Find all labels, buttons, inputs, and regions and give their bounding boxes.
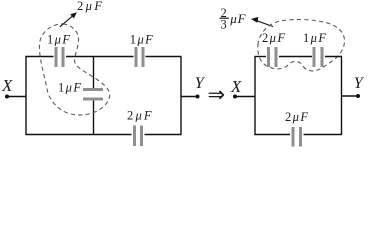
wire: top rail right segment (right circuit) [325,56,342,58]
svg-text:1μF: 1μF [58,80,82,94]
svg-text:1μF: 1μF [130,33,154,47]
wire: top rail middle segment (right circuit) [279,56,312,58]
arrow from dashed group to 2μF equivalent label [60,12,77,27]
wire: bottom rail right segment (right circuit) [304,134,343,136]
value label 1μF (C1) [47,33,71,47]
svg-text:X: X [230,77,242,96]
node X terminal dot (left circuit) [5,95,9,99]
wire: right edge of left circuit [180,57,182,135]
equivalent-value label 2/3 μF (right circuit) [220,6,247,32]
node Y terminal dot (left circuit) [196,95,200,99]
wire: X stub (left circuit) [7,96,26,98]
dashed group outline around series pair (right circuit) [258,20,345,71]
capacitor C2 1μF (top-right) [135,47,145,67]
value label 2μF (C7) [285,110,309,124]
label X (right circuit) [230,77,242,96]
wire: bottom rail left segment (right circuit) [254,134,290,136]
dashed group outline around C1 and C3 [39,24,109,115]
value label 2μF (C4) [127,108,154,122]
svg-text:2μF: 2μF [77,0,104,13]
value label 2μF (C5) [262,31,286,45]
capacitor C7 2μF (right circuit bottom) [292,127,303,147]
value label 1μF (C2) [130,33,154,47]
label Y (right circuit) [354,75,365,92]
node Y terminal dot (right circuit) [356,94,360,98]
wire: X stub (right circuit) [235,96,255,98]
wire: Y stub (left circuit) [181,96,198,98]
svg-text:X: X [1,76,13,95]
wire: left edge of left circuit [25,57,27,135]
node X terminal dot (right circuit) [233,95,237,99]
wire: left edge of right circuit [254,57,256,136]
svg-text:⇒: ⇒ [208,83,226,107]
svg-text:μF: μF [229,11,246,26]
capacitor C6 1μF (right circuit, series pair right) [313,47,324,67]
wire: right edge of right circuit [341,57,343,136]
wire: bottom rail right segment [145,134,182,136]
svg-text:1μF: 1μF [303,31,327,45]
equivalent-value label 2μF (for dashed group, left circuit) [77,0,104,13]
svg-text:1μF: 1μF [47,33,71,47]
arrow from dashed series group to 2/3 μF label [251,17,273,27]
wire: Y stub (right circuit) [342,95,359,97]
value label 1μF (C3) [58,80,82,94]
svg-text:2μF: 2μF [127,108,154,122]
implication arrow ⇒ [208,83,226,107]
capacitor C3 1μF (middle branch) [83,88,103,101]
value label 1μF (C6) [303,31,327,45]
capacitor C1 1μF (top-left) [55,47,65,67]
svg-text:3: 3 [221,17,227,31]
wire: middle branch upper segment [93,57,95,89]
wire: bottom rail left segment [25,134,131,136]
wire: top rail middle segment [66,56,134,58]
wire: middle branch lower segment [93,101,95,136]
capacitor C5 2μF (right circuit, series pair left) [267,47,278,67]
capacitor C4 2μF (bottom) [133,126,143,147]
svg-text:2μF: 2μF [262,31,286,45]
wire: top rail left segment (right circuit) [254,56,266,58]
wire: top rail left segment [25,56,53,58]
label X (left circuit) [1,76,13,95]
svg-text:2μF: 2μF [285,110,309,124]
wire: top rail right segment [146,56,182,58]
label Y (left circuit) [195,75,206,92]
